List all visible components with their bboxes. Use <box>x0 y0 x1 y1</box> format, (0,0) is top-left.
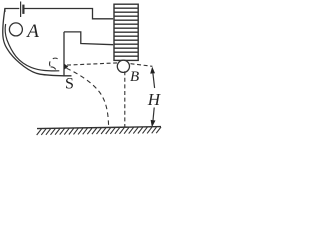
svg-text:B: B <box>130 69 139 85</box>
svg-text:S: S <box>65 76 74 93</box>
svg-text:H: H <box>147 90 162 109</box>
svg-text:A: A <box>25 21 39 42</box>
